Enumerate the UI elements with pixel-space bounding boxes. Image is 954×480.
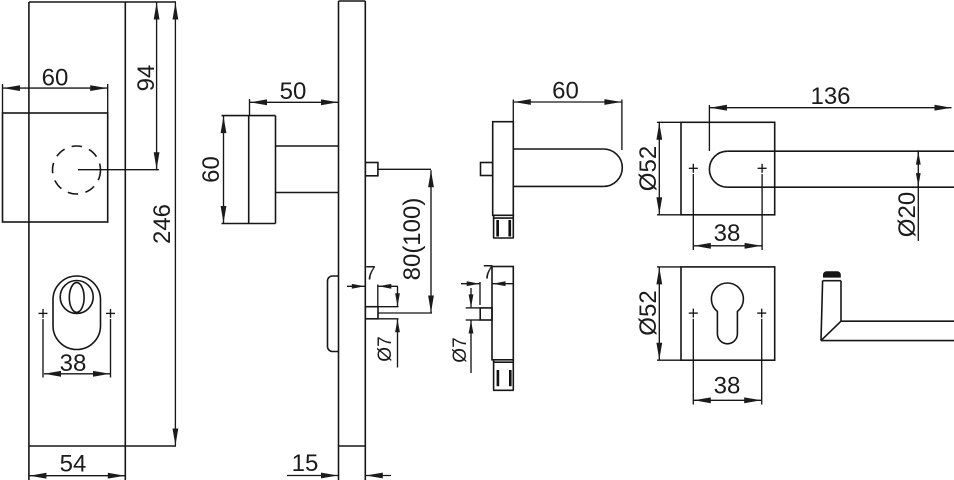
- lever 3d view: arm bottom edge: [821, 340, 954, 342]
- svg-text:136: 136: [810, 83, 850, 110]
- fixing screw stub: [365, 307, 378, 319]
- left screw cross mark: [689, 312, 698, 314]
- dimension 7 (screw protrusion): left arrow: [461, 283, 480, 285]
- extension line right screw: [761, 174, 763, 250]
- lever front view bottom edge: [727, 186, 954, 188]
- dimension 38 (rose screws): [694, 399, 761, 401]
- svg-text:38: 38: [714, 373, 741, 400]
- extension line left screw: [692, 174, 694, 250]
- dimension 136 (lever length): [710, 107, 952, 109]
- lever 3d view: miter joint line: [821, 321, 841, 340]
- svg-text:7: 7: [483, 263, 494, 284]
- diameter 7 lower arrow with leader: [397, 319, 399, 367]
- dimension 50 (knob depth): [250, 101, 338, 103]
- dimension 7: extension line: [377, 285, 379, 307]
- svg-text:60: 60: [552, 78, 579, 105]
- lever front view rounded end: [709, 151, 727, 187]
- extension line left screw: [42, 319, 44, 378]
- right screw cross mark: [106, 312, 115, 314]
- svg-text:54: 54: [60, 451, 87, 478]
- knob side view: right edge: [275, 116, 277, 224]
- screw stub top extension: [378, 306, 399, 308]
- dimension 7: right arrow: [493, 283, 514, 285]
- extension line right screw: [761, 319, 763, 405]
- dimension 60 (square escutcheon width): [3, 87, 107, 89]
- svg-text:50: 50: [280, 78, 307, 105]
- diameter 7 upper arrow: [397, 287, 399, 306]
- centre line from dashed circle: [78, 169, 159, 171]
- extension line right screw: [110, 319, 112, 378]
- plate side view: lower edge line: [339, 445, 366, 447]
- dimension 7: right arrow: [378, 285, 398, 287]
- plate side view: right edge: [364, 1, 366, 480]
- lever grip top edge: [513, 148, 603, 150]
- screw stub bottom extension: [378, 318, 399, 320]
- lever grip bottom edge: [513, 185, 603, 187]
- dimension 60 (lever depth): [514, 101, 622, 103]
- right screw cross mark: [758, 167, 767, 169]
- dimension 50 (knob depth) extension: [249, 99, 251, 116]
- svg-text:60: 60: [42, 65, 69, 92]
- security plate front view: right edge: [124, 2, 126, 480]
- security plate front view: left edge: [28, 2, 30, 480]
- lever 3d view: grip left edge: [821, 281, 823, 341]
- dimension 38 (rose screws): [694, 245, 762, 247]
- dimension 54 (plate width): [29, 475, 124, 477]
- dashed circle (knob position): [53, 146, 101, 194]
- diameter 52 extension lines: [657, 121, 681, 123]
- square lever rose front view outline: [681, 122, 775, 215]
- spindle stub: [365, 163, 378, 176]
- dimension 15: right arrow: [366, 475, 391, 477]
- lower rose side view outline: [492, 267, 513, 360]
- dimension 80(100) (spindle to screw axis): [430, 170, 432, 312]
- screw stub axis leader: [378, 312, 432, 314]
- dimension 246 (plate length): [174, 3, 176, 446]
- dimension 60 (lever depth) extension right: [621, 100, 623, 151]
- screw stub bottom extension: [466, 319, 481, 321]
- svg-text:7: 7: [365, 264, 376, 285]
- rose fixing detail box sides: [493, 215, 495, 238]
- plate side view: left edge: [338, 1, 340, 480]
- plate side view: top edge: [339, 0, 366, 2]
- dimension 38 (plate screws): [44, 373, 110, 375]
- dimension 94 (top to knob centre): [156, 3, 158, 170]
- square cylinder rose front view outline: [681, 267, 775, 360]
- square knob escutcheon outline: [3, 113, 108, 222]
- security plate front view: lower edge line: [29, 445, 176, 447]
- knob side view: bottom edge with extension: [222, 223, 276, 225]
- euro profile cylinder hole: [711, 283, 743, 344]
- lever front view top edge: [727, 150, 954, 152]
- svg-text:80(100): 80(100): [399, 198, 426, 281]
- lever 3d view: cap underline: [823, 280, 841, 282]
- svg-text:Ø52: Ø52: [635, 290, 662, 335]
- fixing screw stub (side view): [480, 308, 492, 320]
- rose fixing detail box bottom line: [493, 237, 514, 239]
- svg-text:94: 94: [133, 65, 160, 92]
- spindle stub (side view): [481, 163, 493, 176]
- left screw cross mark: [39, 312, 48, 314]
- diameter 7 lower arrow with leader: [470, 321, 472, 374]
- lever 3d view: arm top edge: [841, 320, 954, 322]
- lower rose fixing detail box top line: [494, 361, 514, 363]
- lower rose fixing clip bars: [497, 370, 500, 386]
- svg-text:Ø20: Ø20: [894, 192, 921, 237]
- dimension 7 (screw stub protrusion): left arrow: [347, 285, 365, 287]
- lever 3d view: grip right edge: [840, 281, 842, 322]
- svg-text:38: 38: [714, 220, 741, 247]
- oval cylinder escutcheon outline: [53, 276, 101, 350]
- left screw cross mark: [689, 167, 698, 169]
- svg-text:246: 246: [149, 204, 176, 244]
- knob neck bottom: [276, 192, 339, 194]
- lever grip rounded end: [604, 149, 623, 186]
- rose fixing clip bars: [496, 220, 499, 237]
- lower rose fixing detail box sides: [493, 360, 495, 391]
- right screw cross mark: [757, 312, 766, 314]
- dimension 136 extension: [708, 105, 710, 151]
- diameter 52 extension lines: [657, 266, 681, 268]
- lower rose fixing detail box bottom line: [493, 389, 514, 391]
- cylinder core oval: [69, 283, 84, 313]
- screw stub top extension: [466, 307, 481, 309]
- svg-text:Ø7: Ø7: [375, 336, 396, 361]
- dimension 60 (knob size): [223, 116, 225, 223]
- knob side view: left edge: [248, 116, 250, 224]
- security plate front view: top edge: [29, 1, 176, 3]
- svg-text:60: 60: [198, 156, 225, 183]
- lever handle side view: rose outline: [493, 122, 514, 216]
- dimension 15 (plate thickness): left arrow: [287, 475, 338, 477]
- rose fixing detail box top line: [494, 217, 514, 219]
- spindle axis leader: [378, 168, 431, 170]
- svg-text:Ø7: Ø7: [450, 337, 471, 362]
- dimension 60 (square escutcheon width) extension lines: [2, 84, 4, 113]
- knob neck top: [276, 145, 339, 147]
- dimension diameter 20 (lever profile): [917, 150, 919, 241]
- dimension 60 (lever depth) extension left: [512, 100, 514, 122]
- dimension diameter 52 (rose size): [658, 267, 660, 359]
- dimension diameter 52 (rose size): [658, 123, 660, 215]
- diameter 7 upper arrow: [470, 288, 472, 307]
- cylinder cover bump on side view: [328, 276, 339, 352]
- knob side view: top edge with extension: [222, 115, 276, 117]
- extension line left screw: [692, 319, 694, 405]
- lever 3d view: black end cap: [823, 271, 841, 277]
- svg-text:Ø52: Ø52: [635, 146, 662, 191]
- svg-text:38: 38: [60, 350, 87, 377]
- svg-text:15: 15: [292, 450, 319, 477]
- dimension 7: extension line: [479, 282, 481, 305]
- cylinder ring circle: [60, 281, 93, 314]
